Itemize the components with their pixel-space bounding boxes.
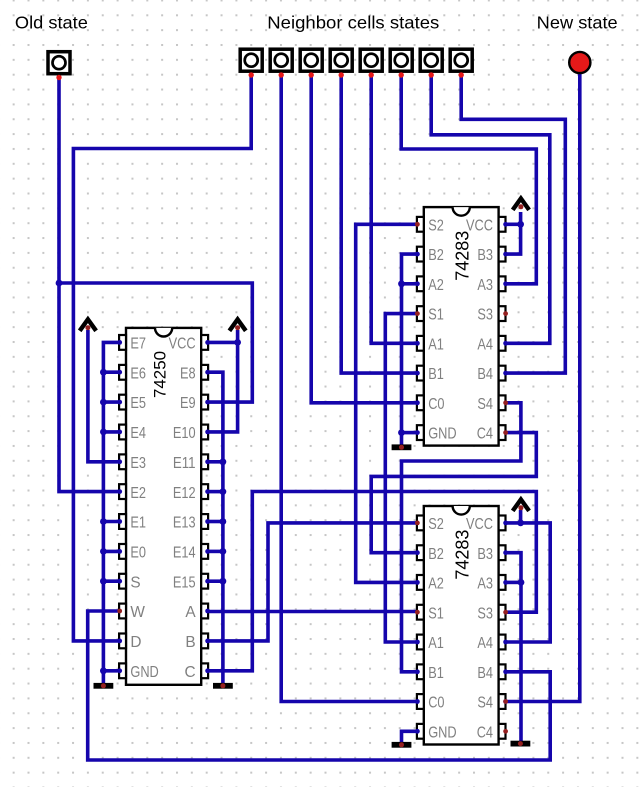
svg-text:E5: E5 bbox=[130, 395, 146, 412]
svg-text:GND: GND bbox=[130, 664, 158, 681]
svg-text:B2: B2 bbox=[428, 546, 444, 563]
svg-text:74283: 74283 bbox=[453, 231, 473, 281]
svg-text:B4: B4 bbox=[477, 366, 493, 383]
svg-text:S: S bbox=[130, 574, 140, 591]
svg-text:S1: S1 bbox=[428, 307, 444, 324]
svg-text:S4: S4 bbox=[477, 396, 493, 413]
svg-text:A3: A3 bbox=[477, 576, 493, 593]
svg-text:B1: B1 bbox=[428, 665, 444, 682]
svg-text:E3: E3 bbox=[130, 455, 146, 472]
svg-text:B: B bbox=[185, 634, 195, 651]
svg-text:E13: E13 bbox=[173, 515, 196, 532]
svg-text:E6: E6 bbox=[130, 365, 146, 382]
svg-text:E15: E15 bbox=[173, 574, 196, 591]
svg-text:E11: E11 bbox=[173, 455, 196, 472]
svg-text:B3: B3 bbox=[477, 247, 493, 264]
svg-text:74283: 74283 bbox=[453, 530, 473, 580]
svg-text:A2: A2 bbox=[428, 277, 444, 294]
svg-text:C0: C0 bbox=[428, 695, 444, 712]
svg-text:E10: E10 bbox=[173, 425, 196, 442]
svg-text:GND: GND bbox=[428, 724, 456, 741]
svg-text:S3: S3 bbox=[477, 605, 493, 622]
svg-text:A2: A2 bbox=[428, 576, 444, 593]
svg-text:VCC: VCC bbox=[169, 336, 196, 353]
svg-text:74250: 74250 bbox=[150, 351, 169, 398]
svg-text:E1: E1 bbox=[130, 515, 146, 532]
svg-text:E2: E2 bbox=[130, 485, 146, 502]
svg-text:A1: A1 bbox=[428, 635, 444, 652]
svg-text:A3: A3 bbox=[477, 277, 493, 294]
svg-text:B1: B1 bbox=[428, 366, 444, 383]
svg-text:A4: A4 bbox=[477, 635, 493, 652]
svg-text:A4: A4 bbox=[477, 336, 493, 353]
svg-text:E14: E14 bbox=[173, 545, 196, 562]
svg-text:C4: C4 bbox=[477, 426, 494, 443]
svg-text:W: W bbox=[130, 604, 145, 621]
svg-text:E9: E9 bbox=[180, 395, 196, 412]
svg-text:B2: B2 bbox=[428, 247, 444, 264]
svg-text:S1: S1 bbox=[428, 605, 444, 622]
svg-text:Neighbor cells states: Neighbor cells states bbox=[267, 13, 439, 33]
svg-text:B4: B4 bbox=[477, 665, 493, 682]
svg-text:C0: C0 bbox=[428, 396, 444, 413]
svg-text:E7: E7 bbox=[130, 336, 146, 353]
svg-text:C4: C4 bbox=[477, 724, 494, 741]
svg-text:GND: GND bbox=[428, 426, 456, 443]
svg-text:New state: New state bbox=[537, 13, 618, 33]
svg-text:A1: A1 bbox=[428, 336, 444, 353]
svg-text:S2: S2 bbox=[428, 217, 444, 234]
svg-text:E0: E0 bbox=[130, 545, 146, 562]
svg-text:A: A bbox=[185, 604, 196, 621]
svg-text:E12: E12 bbox=[173, 485, 196, 502]
svg-text:D: D bbox=[130, 634, 141, 651]
svg-text:Old state: Old state bbox=[15, 13, 88, 33]
svg-text:E4: E4 bbox=[130, 425, 146, 442]
svg-text:S2: S2 bbox=[428, 516, 444, 533]
svg-text:S3: S3 bbox=[477, 307, 493, 324]
svg-text:B3: B3 bbox=[477, 546, 493, 563]
svg-text:E8: E8 bbox=[180, 365, 196, 382]
svg-text:C: C bbox=[184, 664, 195, 681]
svg-text:S4: S4 bbox=[477, 695, 493, 712]
